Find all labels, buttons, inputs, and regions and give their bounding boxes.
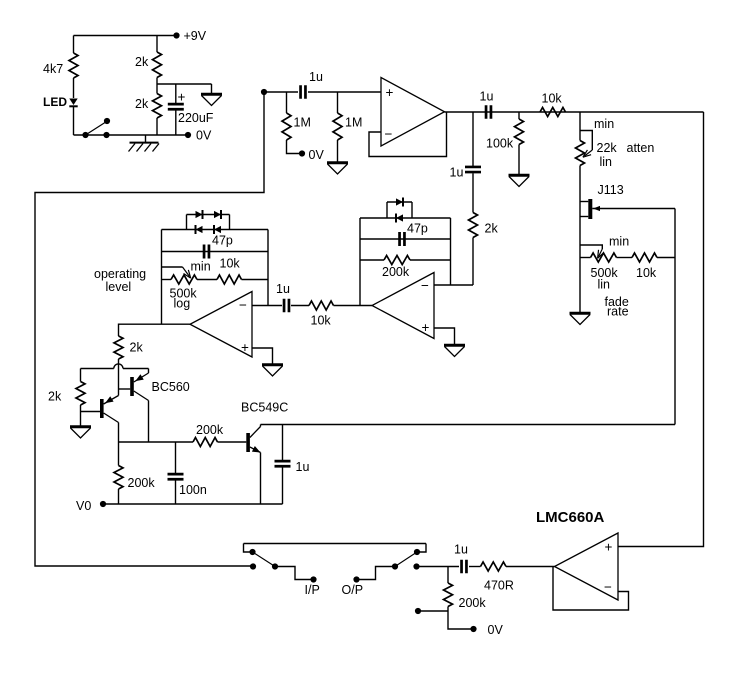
- wire switch to cap: [417, 566, 460, 568]
- wire 0V bottom rail: [74, 134, 189, 136]
- switch S1c O/P: [342, 544, 427, 598]
- wire U1 output: [445, 111, 704, 113]
- svg-text:LED: LED: [43, 95, 67, 109]
- wire divider node: [157, 83, 212, 85]
- svg-text:1u: 1u: [454, 543, 468, 557]
- svg-text:BC549C: BC549C: [241, 401, 288, 415]
- resistor 10k U2: [217, 257, 268, 285]
- op-amp U4 LMC660A: [536, 509, 618, 600]
- svg-text:1u: 1u: [296, 460, 310, 474]
- svg-text:1M: 1M: [294, 116, 311, 130]
- switch S1b I/P: [244, 544, 320, 598]
- svg-text:22k: 22k: [597, 141, 618, 155]
- svg-text:rate: rate: [607, 305, 629, 319]
- svg-text:10k: 10k: [636, 266, 657, 280]
- capacitor 1u to 2k: [450, 166, 482, 180]
- resistor 470R: [481, 562, 514, 593]
- transistor Q2 lower PNP: [81, 389, 119, 442]
- svg-text:10k: 10k: [542, 92, 563, 106]
- capacitor 47p U2: [162, 234, 269, 259]
- svg-text:10k: 10k: [220, 257, 241, 271]
- svg-text:2k: 2k: [485, 222, 499, 236]
- wire cap to 470R: [469, 566, 481, 568]
- capacitor 1u input: [301, 70, 323, 99]
- wire U3 box right: [450, 218, 452, 285]
- svg-text:+: +: [178, 90, 186, 105]
- pot 22k atten: [576, 112, 655, 169]
- svg-text:O/P: O/P: [342, 583, 364, 597]
- svg-text:1u: 1u: [276, 282, 290, 296]
- svg-text:2k: 2k: [48, 390, 62, 404]
- wire U2 box top: [162, 229, 269, 231]
- resistor 10k U2-U3: [309, 301, 334, 328]
- wire input down-left rail: [35, 92, 264, 566]
- earth ground symbol: [129, 135, 160, 152]
- pot 500k fade: [580, 235, 632, 319]
- capacitor 220uF: [168, 84, 214, 135]
- wire V0 rail: [103, 503, 283, 505]
- svg-text:200k: 200k: [382, 265, 410, 279]
- resistor 1M right: [333, 92, 362, 162]
- wire U3 minus: [434, 284, 473, 286]
- wire U2 plus to ground: [252, 348, 273, 364]
- svg-text:min: min: [594, 117, 614, 131]
- svg-text:−: −: [421, 278, 429, 293]
- svg-text:+: +: [241, 340, 249, 355]
- wire 470R to opamp: [506, 566, 555, 568]
- resistor 100k: [486, 112, 524, 174]
- svg-text:+: +: [605, 540, 613, 555]
- svg-text:0V: 0V: [309, 148, 325, 162]
- ground under 100k: [509, 175, 530, 186]
- svg-text:min: min: [609, 235, 629, 249]
- ground U3 plus: [444, 345, 465, 356]
- op-amp U3 fade: [372, 273, 434, 339]
- wire U3 box left: [359, 218, 361, 306]
- resistor 200k to Q3 base: [193, 423, 246, 447]
- node +9V: [173, 29, 206, 43]
- svg-text:min: min: [191, 260, 211, 274]
- diode branch upper U2: [187, 210, 230, 230]
- svg-text:lin: lin: [598, 278, 611, 292]
- svg-text:+: +: [386, 85, 394, 100]
- wire 10k to U3 output: [334, 305, 373, 307]
- svg-text:1u: 1u: [450, 166, 464, 180]
- capacitor 100n: [168, 442, 207, 504]
- wire U2 minus: [252, 305, 282, 307]
- resistor 1M left: [282, 92, 311, 154]
- wire 2k to base: [118, 359, 120, 389]
- wire output node down: [472, 112, 474, 166]
- op-amp U2 operating level: [190, 292, 252, 358]
- wire 200k to 0V: [448, 611, 503, 637]
- resistor 200k U3: [360, 256, 451, 280]
- capacitor 1u at Q3: [275, 425, 310, 505]
- svg-text:100n: 100n: [179, 483, 207, 497]
- svg-text:−: −: [604, 580, 612, 595]
- svg-text:1u: 1u: [480, 90, 494, 104]
- wire gate down: [674, 209, 676, 425]
- transistor J113 JFET: [580, 183, 675, 219]
- op-amp U1 buffer: [381, 78, 445, 147]
- wire U4 feedback: [553, 567, 629, 611]
- svg-text:level: level: [106, 280, 132, 294]
- wire switch top bracket: [244, 543, 427, 545]
- wire 200k tap: [415, 608, 448, 614]
- node 0V input bias: [299, 148, 325, 162]
- node V0: [76, 499, 106, 513]
- capacitor 1u U2-U3: [276, 282, 290, 312]
- wire U3 box top: [360, 217, 451, 219]
- wire fade to ground: [579, 258, 581, 313]
- svg-text:100k: 100k: [486, 137, 514, 151]
- wire collector to gate rail: [261, 424, 676, 426]
- svg-text:200k: 200k: [128, 476, 156, 490]
- svg-text:0V: 0V: [488, 623, 504, 637]
- resistor 200k vertical: [114, 442, 155, 504]
- wire U2 output: [119, 324, 191, 336]
- ground U2 plus: [262, 365, 283, 376]
- svg-text:47p: 47p: [212, 234, 233, 248]
- resistor 2k lower: [135, 94, 162, 136]
- svg-text:4k7: 4k7: [43, 62, 63, 76]
- wire 2k to minus: [472, 238, 474, 286]
- transistor Q1 BC560: [119, 369, 190, 443]
- resistor 200k bias: [444, 567, 487, 612]
- diode branch upper U3: [387, 198, 412, 219]
- node input: [261, 89, 267, 95]
- wire U2 box left: [161, 230, 163, 325]
- resistor 10k series: [540, 92, 565, 117]
- LED D1: [43, 95, 78, 135]
- capacitor 1u output: [454, 543, 468, 574]
- capacitor 1u output coupling: [480, 90, 494, 119]
- capacitor 47p U3: [360, 222, 451, 247]
- svg-text:220uF: 220uF: [178, 111, 214, 125]
- svg-text:log: log: [174, 297, 191, 311]
- svg-text:2k: 2k: [135, 55, 149, 69]
- svg-text:10k: 10k: [311, 314, 332, 328]
- node 0V top-left: [185, 129, 212, 143]
- svg-text:atten: atten: [627, 141, 655, 155]
- svg-text:−: −: [239, 298, 247, 313]
- wire cap to 10k: [291, 305, 309, 307]
- resistor 2k mid-right: [469, 213, 499, 238]
- wire +9V top rail: [74, 35, 177, 37]
- svg-text:200k: 200k: [196, 423, 224, 437]
- svg-text:470R: 470R: [484, 579, 514, 593]
- wire left vertical: [73, 36, 75, 99]
- svg-text:2k: 2k: [130, 341, 144, 355]
- wire input to cap: [264, 91, 298, 93]
- label operating level: [94, 267, 146, 294]
- svg-text:0V: 0V: [196, 129, 212, 143]
- svg-text:J113: J113: [598, 183, 624, 197]
- wire U2 box right: [267, 230, 269, 306]
- wire 22k to JFET: [579, 166, 581, 258]
- svg-text:+: +: [422, 320, 430, 335]
- wire U1 feedback: [369, 112, 447, 157]
- switch S1a: [82, 118, 110, 138]
- ground fade: [570, 313, 591, 324]
- ground Q2 base: [70, 427, 91, 438]
- transistor Q3 BC549C: [241, 401, 288, 505]
- resistor 10k fade: [632, 253, 675, 280]
- svg-text:operating: operating: [94, 267, 146, 281]
- resistor 4k7: [43, 53, 78, 78]
- svg-text:200k: 200k: [459, 596, 487, 610]
- svg-text:−: −: [385, 127, 393, 142]
- svg-text:1u: 1u: [309, 70, 323, 84]
- wire right rail: [618, 112, 704, 547]
- wire collector rail: [119, 441, 194, 443]
- svg-text:47p: 47p: [407, 222, 428, 236]
- svg-text:2k: 2k: [135, 97, 149, 111]
- wire cap to 2k: [472, 173, 474, 212]
- svg-text:BC560: BC560: [152, 380, 190, 394]
- wire U3 plus to ground: [434, 328, 455, 344]
- svg-text:lin: lin: [600, 155, 613, 169]
- diode lower U3: [396, 214, 403, 223]
- wire emitter rail with hop: [81, 364, 149, 369]
- ground right of divider: [201, 84, 222, 106]
- svg-text:I/P: I/P: [305, 583, 320, 597]
- resistor 2k from U2: [114, 336, 143, 359]
- svg-text:LMC660A: LMC660A: [536, 509, 605, 526]
- ground under 1M: [327, 163, 348, 174]
- resistor 2k upper: [135, 36, 162, 94]
- diode pair lower U2: [196, 225, 222, 234]
- svg-text:+9V: +9V: [184, 29, 207, 43]
- wire cap to opamp: [308, 91, 381, 93]
- svg-text:1M: 1M: [345, 116, 362, 130]
- svg-text:V0: V0: [76, 499, 91, 513]
- pot 500k log: [162, 260, 218, 311]
- resistor 2k to base Q2: [48, 369, 85, 426]
